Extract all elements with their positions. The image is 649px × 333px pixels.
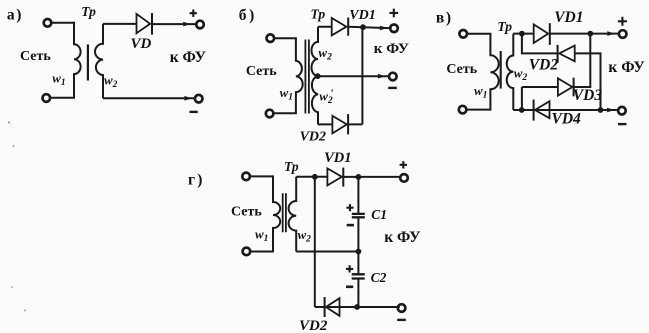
svg-text:в): в) <box>436 9 451 26</box>
svg-text:Сеть: Сеть <box>20 49 51 64</box>
svg-text:VD1: VD1 <box>349 8 375 23</box>
svg-text:Тр: Тр <box>81 4 96 19</box>
svg-text:VD1: VD1 <box>324 150 351 166</box>
svg-text:Сеть: Сеть <box>446 62 477 77</box>
svg-text:VD2: VD2 <box>299 318 328 333</box>
svg-text:Тр: Тр <box>497 19 512 34</box>
svg-text:C1: C1 <box>371 207 387 222</box>
svg-text:VD3: VD3 <box>573 87 603 104</box>
svg-text:к ФУ: к ФУ <box>608 59 645 76</box>
svg-text:VD2: VD2 <box>529 56 559 73</box>
svg-text:Сеть: Сеть <box>246 64 277 79</box>
svg-text:к ФУ: к ФУ <box>170 49 207 66</box>
svg-text:а): а) <box>7 7 22 24</box>
svg-text:VD1: VD1 <box>554 9 583 26</box>
svg-text:Сеть: Сеть <box>231 205 262 220</box>
svg-text:б): б) <box>239 7 255 24</box>
svg-text:к ФУ: к ФУ <box>384 229 421 246</box>
svg-text:VD2: VD2 <box>300 129 326 144</box>
svg-text:w2′: w2′ <box>319 87 334 106</box>
svg-text:Тр: Тр <box>284 159 299 174</box>
svg-text:к ФУ: к ФУ <box>374 41 409 57</box>
svg-text:VD: VD <box>131 36 152 52</box>
svg-text:VD4: VD4 <box>552 111 582 128</box>
svg-text:Тр: Тр <box>311 7 326 22</box>
svg-text:C2: C2 <box>371 270 387 285</box>
